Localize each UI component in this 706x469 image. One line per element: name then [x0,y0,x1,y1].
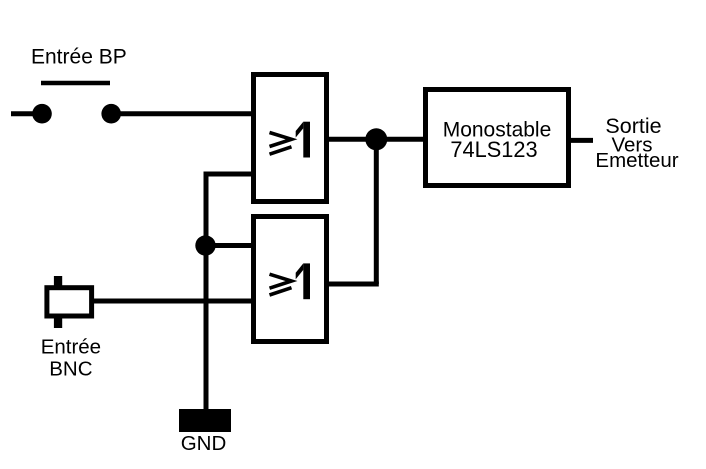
svg-text:74LS123: 74LS123 [450,137,537,162]
svg-text:Entrée BP: Entrée BP [31,45,127,68]
svg-text:Emetteur: Emetteur [595,149,678,172]
svg-text:BNC: BNC [49,357,92,380]
svg-text:Entrée: Entrée [41,336,101,359]
svg-text:GND: GND [181,432,227,455]
